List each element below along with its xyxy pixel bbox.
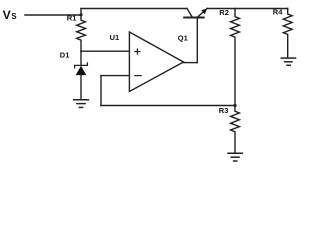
zener diode D1 <box>75 51 88 99</box>
ground for R3 <box>228 153 242 161</box>
wire emitter to R2 and R4 <box>207 8 288 10</box>
svg-text:R1: R1 <box>67 14 77 23</box>
op-amp + input sign <box>135 49 140 54</box>
wire feedback bottom horizontal <box>101 105 235 107</box>
svg-text:R4: R4 <box>273 7 283 16</box>
node junction dot R2/R3/feedback <box>233 104 236 107</box>
node VS label <box>3 8 17 22</box>
transistor Q1 <box>184 8 207 17</box>
op-amp U1 <box>129 32 183 92</box>
svg-text:S: S <box>11 12 16 21</box>
svg-text:V: V <box>3 8 12 22</box>
op-amp - input sign <box>135 75 141 77</box>
node junction dot at R1 top <box>79 13 82 16</box>
wire junction up to top rail <box>80 9 82 16</box>
wire R1 bottom to op-amp + input <box>81 50 129 52</box>
svg-text:R2: R2 <box>219 8 229 17</box>
svg-text:R3: R3 <box>219 106 229 115</box>
svg-text:U1: U1 <box>110 33 120 42</box>
ground for R4 <box>281 58 295 65</box>
wire output up to transistor base <box>196 18 198 62</box>
wire - input stub <box>101 75 129 77</box>
wire top rail to transistor collector <box>81 8 187 10</box>
ground for D1 <box>74 100 89 108</box>
resistor R4 <box>283 9 292 58</box>
svg-text:D1: D1 <box>60 51 70 60</box>
resistor R3 <box>231 106 240 153</box>
wire op-amp output <box>184 62 198 64</box>
wire VS to R1 top junction <box>25 14 81 16</box>
svg-text:Q1: Q1 <box>178 34 188 43</box>
wire feedback left vertical <box>100 76 102 106</box>
resistor R1 <box>77 15 86 51</box>
resistor R2 <box>231 9 240 106</box>
